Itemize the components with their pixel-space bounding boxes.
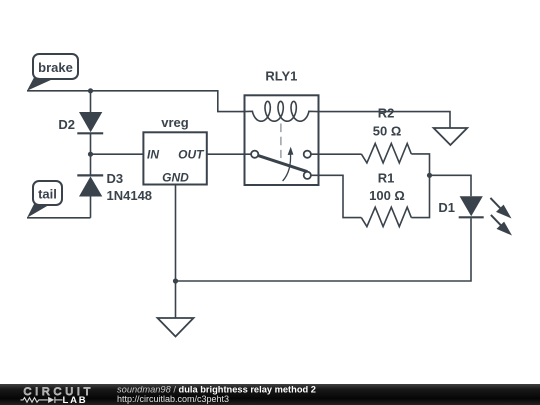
wire to ground1 (175, 281, 177, 318)
svg-text:100 Ω: 100 Ω (369, 188, 405, 203)
wire relay throw1 to R2 (311, 153, 361, 155)
resistor R2 (361, 106, 411, 163)
wire D2 to D3 (90, 134, 92, 175)
svg-text:vreg: vreg (161, 115, 189, 130)
svg-text:IN: IN (147, 148, 159, 162)
svg-text:50 Ω: 50 Ω (373, 124, 402, 139)
svg-text:tail: tail (38, 187, 57, 202)
svg-text:OUT: OUT (178, 148, 205, 162)
svg-text:D2: D2 (58, 117, 75, 132)
wire to vreg IN (91, 153, 144, 155)
wire R1 to junction (411, 175, 429, 217)
wire brake to relay (top) (27, 91, 245, 112)
svg-text:LAB: LAB (63, 395, 88, 405)
wire relay throw2 to R1 (311, 175, 361, 217)
diode D3 (77, 171, 152, 203)
node junction GND rail (173, 278, 178, 283)
svg-text:brake: brake (38, 60, 73, 75)
svg-text:1N4148: 1N4148 (107, 188, 153, 203)
logo CIRCUITLAB (21, 386, 95, 405)
net flag tail (27, 181, 62, 218)
svg-text:D1: D1 (438, 200, 455, 215)
LED D1 (438, 196, 512, 235)
wire vreg OUT to relay pole (207, 153, 251, 155)
footer bar (0, 384, 540, 405)
wire D1 to bottom rail (176, 218, 472, 281)
diode D2 (58, 112, 103, 133)
svg-text:R2: R2 (378, 106, 395, 121)
voltage regulator vreg (143, 115, 206, 185)
svg-text:http://circuitlab.com/c3peht3: http://circuitlab.com/c3peht3 (117, 394, 229, 404)
net flag brake (27, 54, 78, 91)
svg-text:GND: GND (162, 171, 189, 185)
node junction R1/R2/D1 (427, 173, 432, 178)
wire tail horizontal (27, 217, 91, 219)
svg-text:D3: D3 (107, 171, 124, 186)
relay RLY1 (245, 69, 319, 186)
wire D3 to tail (90, 197, 92, 218)
wire R2 to junction (411, 154, 429, 175)
wire junction to D1 (430, 175, 472, 196)
wire relay coil to ground2 (319, 112, 451, 128)
footer credits (117, 385, 316, 404)
node junction brake/D2 (88, 88, 93, 93)
wire vreg GND down (175, 185, 177, 282)
node junction IN (88, 152, 93, 157)
resistor R1 (361, 171, 411, 227)
ground main (158, 318, 194, 337)
wire D2 branch vertical (90, 91, 92, 112)
ground right (434, 128, 468, 145)
svg-text:RLY1: RLY1 (265, 69, 297, 84)
svg-text:R1: R1 (378, 171, 395, 186)
